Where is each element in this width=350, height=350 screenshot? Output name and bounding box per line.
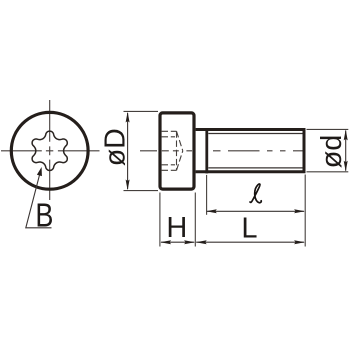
thread start line: [205, 128, 208, 173]
arrow ød bottom: [344, 161, 348, 172]
svg-text:B: B: [35, 198, 53, 234]
extension line H left: [159, 193, 161, 247]
center line horizontal of head top view: [1, 150, 100, 152]
label l (script ell): [250, 184, 261, 203]
dimension line øD: [127, 113, 129, 189]
socket hidden lines (dashed): [162, 131, 183, 170]
leader arrowhead B: [37, 167, 42, 176]
arrow L left: [196, 240, 207, 244]
dimension line H: [161, 241, 194, 243]
shaft outline (side view): [196, 128, 304, 173]
arrow l right: [294, 209, 305, 213]
extension line right end (l and L): [304, 175, 306, 247]
center line of side view: [140, 150, 305, 152]
dimension line l: [207, 210, 304, 212]
arrow L right: [294, 240, 305, 244]
torx recess outline (top view): [32, 131, 67, 170]
svg-text:H: H: [166, 212, 187, 244]
extension line H right / L left: [194, 193, 196, 247]
svg-text:ød: ød: [316, 135, 348, 169]
head side view outline: [160, 113, 194, 189]
dimension line ød: [345, 131, 347, 171]
arrow ød top: [344, 130, 348, 141]
thread root lines: [208, 134, 302, 168]
head outline circle (top view): [11, 112, 88, 189]
dimension øD extension lines: [124, 111, 159, 190]
arrow øD bottom: [126, 180, 130, 191]
arrow l left: [206, 209, 217, 213]
extension line thread length (l): [206, 175, 208, 215]
svg-text:L: L: [241, 213, 257, 245]
leader line for B: [26, 175, 52, 228]
dimension line L: [196, 241, 304, 243]
arrow H left: [160, 240, 171, 244]
svg-text:øD: øD: [99, 128, 131, 166]
dimension ød extension lines: [307, 129, 349, 171]
arrow H right: [184, 240, 195, 244]
center line vertical of head top view: [49, 100, 51, 200]
arrow øD top: [126, 112, 130, 123]
